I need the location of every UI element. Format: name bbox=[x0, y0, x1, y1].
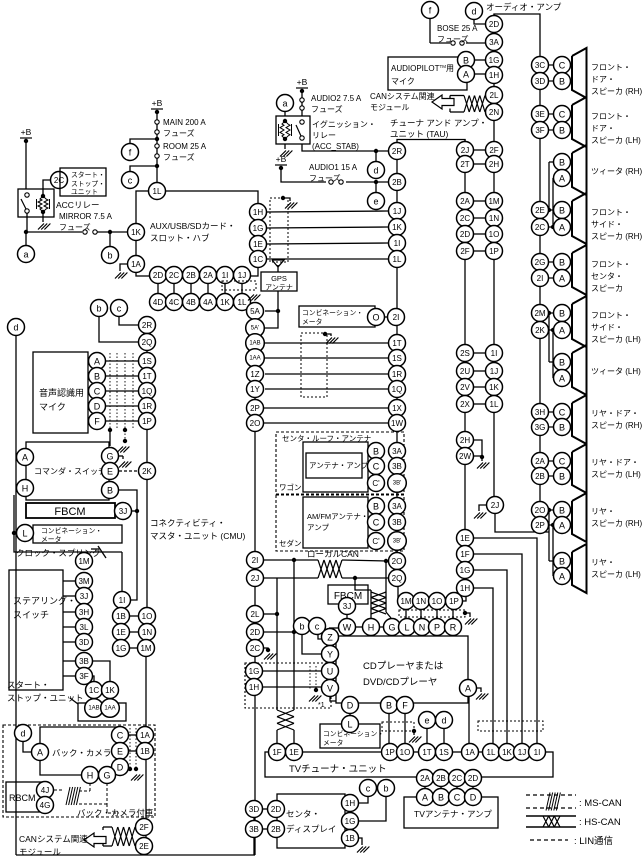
connector pin 3B' bbox=[388, 532, 407, 551]
connector pin 1B bbox=[137, 743, 154, 760]
svg-text:スピーカ (RH): スピーカ (RH) bbox=[591, 87, 642, 96]
wire 2L 2D elbows bbox=[264, 613, 277, 615]
svg-text:1Z: 1Z bbox=[250, 370, 259, 379]
shield dashed box below 1J bbox=[222, 281, 256, 290]
connector pin 1Y bbox=[247, 381, 264, 398]
svg-text:1I: 1I bbox=[394, 239, 401, 248]
svg-text:B: B bbox=[559, 472, 565, 482]
pin f top wire BOSE fuse to 3A bbox=[429, 18, 431, 43]
svg-text:a: a bbox=[23, 250, 28, 260]
connector pin 3D bbox=[532, 73, 549, 90]
connector pin 1T bbox=[139, 368, 156, 385]
svg-text:コマンダ・スイッチ: コマンダ・スイッチ bbox=[34, 466, 106, 476]
shield dashed on B F wires bbox=[382, 722, 414, 731]
svg-text:AUX/USB/SDカード・: AUX/USB/SDカード・ bbox=[150, 221, 236, 231]
connector pin 2B bbox=[389, 174, 406, 191]
svg-text:d: d bbox=[20, 729, 25, 739]
svg-text:ストップ・: ストップ・ bbox=[71, 180, 105, 188]
svg-text:1H: 1H bbox=[489, 71, 499, 80]
svg-text:C': C' bbox=[372, 537, 380, 546]
svg-text:2I: 2I bbox=[537, 274, 544, 283]
svg-text:F: F bbox=[402, 701, 408, 711]
hub right pins 1H 1G 1E 1C with wires to TAU bbox=[266, 211, 388, 212]
connector pin A bbox=[17, 449, 34, 466]
connector pin 4A bbox=[200, 294, 217, 311]
svg-text:1A: 1A bbox=[131, 260, 141, 269]
svg-text:2U: 2U bbox=[460, 367, 470, 376]
svg-text:d: d bbox=[373, 166, 378, 176]
svg-text:1E: 1E bbox=[116, 628, 126, 637]
svg-text:B: B bbox=[559, 557, 565, 567]
svg-text:C: C bbox=[559, 457, 566, 467]
svg-text:1O: 1O bbox=[142, 612, 153, 621]
svg-text:1AA: 1AA bbox=[249, 355, 260, 361]
connector pin 4B bbox=[183, 294, 200, 311]
svg-text:3B: 3B bbox=[392, 462, 402, 471]
svg-text:2P: 2P bbox=[535, 521, 545, 530]
svg-text:L: L bbox=[404, 623, 409, 633]
svg-text:1A: 1A bbox=[140, 731, 150, 740]
shield dashed box on speaker feed wires bbox=[478, 721, 543, 731]
connector pin c bbox=[360, 780, 377, 797]
connector pin b bbox=[102, 247, 119, 264]
connector pin 1I bbox=[217, 267, 234, 284]
svg-text:1Q: 1Q bbox=[392, 385, 403, 394]
svg-text:2P: 2P bbox=[250, 404, 260, 413]
pin A CD player with ground bbox=[476, 688, 481, 692]
svg-text:B: B bbox=[463, 56, 469, 66]
svg-text:2R: 2R bbox=[142, 321, 152, 330]
svg-text:2L: 2L bbox=[490, 91, 499, 100]
svg-text:AUDIO2 7.5 A: AUDIO2 7.5 A bbox=[311, 94, 362, 103]
connector pin D bbox=[112, 759, 129, 776]
svg-text:2D: 2D bbox=[468, 774, 478, 783]
connector pin 2F bbox=[457, 243, 474, 260]
connector pin 3H bbox=[532, 404, 549, 421]
connector pin 3C bbox=[532, 57, 549, 74]
svg-text:d: d bbox=[471, 7, 476, 17]
svg-text:c: c bbox=[128, 176, 133, 186]
svg-text:ACCリレー: ACCリレー bbox=[56, 200, 99, 210]
connector pin e bbox=[419, 712, 436, 729]
connector pin 2O bbox=[389, 553, 406, 570]
svg-text:1T: 1T bbox=[142, 372, 151, 381]
svg-text:D: D bbox=[470, 793, 477, 803]
svg-text:A: A bbox=[559, 521, 565, 531]
connector pin 1R bbox=[139, 398, 156, 415]
svg-text:C: C bbox=[559, 61, 566, 71]
svg-text:1I: 1I bbox=[119, 596, 126, 605]
connector pin 1O bbox=[429, 593, 446, 610]
CD top pins W H G L N P R bbox=[356, 626, 363, 628]
svg-text:2X: 2X bbox=[460, 400, 470, 409]
connector pin B bbox=[102, 482, 119, 499]
connector pin B bbox=[554, 354, 571, 371]
connector pin 1G bbox=[457, 562, 474, 579]
dashed LIN E to 2K bbox=[119, 470, 138, 472]
svg-text:2B: 2B bbox=[271, 825, 281, 834]
svg-text:RBCM: RBCM bbox=[9, 793, 36, 803]
connector pin d bbox=[436, 712, 453, 729]
svg-text:スピーカ (LH): スピーカ (LH) bbox=[591, 470, 641, 479]
connector pin 2A bbox=[417, 770, 434, 787]
connector pin B bbox=[554, 73, 571, 90]
connector pin 1G bbox=[246, 663, 263, 680]
svg-text:2G: 2G bbox=[535, 258, 546, 267]
audio amp main column trunk bbox=[493, 14, 495, 498]
wire relay out to 2R bbox=[302, 144, 388, 151]
svg-text:3B: 3B bbox=[249, 825, 259, 834]
svg-text:リヤ・ドア・: リヤ・ドア・ bbox=[591, 458, 639, 467]
svg-text:d: d bbox=[13, 323, 18, 333]
svg-text:1L: 1L bbox=[490, 400, 499, 409]
center roof antenna dashed box wagon bbox=[276, 432, 404, 494]
connector pin 2J bbox=[247, 570, 264, 587]
svg-text:C: C bbox=[373, 462, 380, 472]
svg-text:バック・カメラ: バック・カメラ bbox=[52, 748, 111, 758]
speaker horn front door LH bbox=[572, 97, 587, 147]
connector pin 1M bbox=[398, 593, 415, 610]
svg-text:2A: 2A bbox=[420, 774, 430, 783]
svg-text:モジュール: モジュール bbox=[19, 847, 61, 857]
speaker horn front center bbox=[572, 245, 587, 295]
connector pin O bbox=[368, 309, 385, 326]
wire 1P to 1H elbow bbox=[462, 596, 466, 601]
node a stub bbox=[25, 232, 27, 245]
svg-text:2C: 2C bbox=[460, 214, 470, 223]
ground relay coil bbox=[284, 144, 286, 149]
connector pin B bbox=[368, 443, 385, 460]
connector pin 2Q bbox=[139, 334, 156, 351]
connector pin 3A bbox=[389, 443, 406, 460]
connector pin A bbox=[32, 744, 49, 761]
connector pin 1K bbox=[486, 379, 503, 396]
svg-text:2B: 2B bbox=[392, 178, 402, 187]
legend MS-CAN bbox=[526, 794, 576, 796]
connector pin 1O bbox=[486, 226, 503, 243]
connector pin 2X bbox=[457, 396, 474, 413]
connector pin b bbox=[378, 780, 395, 797]
svg-text:B: B bbox=[373, 502, 379, 512]
wire CAN verticals down to TV tuner 1F 1E bbox=[293, 560, 295, 710]
svg-text:3F: 3F bbox=[535, 126, 544, 135]
connector pin 2C bbox=[166, 267, 183, 284]
combination meter box small with O bbox=[299, 306, 375, 327]
svg-text:4D: 4D bbox=[153, 298, 163, 307]
svg-text:1G: 1G bbox=[489, 56, 500, 65]
connector pin A bbox=[554, 370, 571, 387]
svg-text:3L: 3L bbox=[80, 623, 89, 632]
connector pin b bbox=[91, 300, 108, 317]
connector pin 2A bbox=[457, 193, 474, 210]
wire CMU left trunk bbox=[146, 333, 148, 463]
svg-text:フューズ: フューズ bbox=[309, 173, 341, 183]
connector pin 2K bbox=[532, 322, 549, 339]
svg-text:3J: 3J bbox=[80, 592, 88, 601]
svg-text:スピーカ (RH): スピーカ (RH) bbox=[591, 421, 642, 430]
connector pin 5A bbox=[247, 303, 264, 320]
connector pin A bbox=[554, 517, 571, 534]
svg-text:リヤ・: リヤ・ bbox=[591, 507, 615, 516]
connector pin H bbox=[17, 480, 34, 497]
connector pin 1H bbox=[246, 679, 263, 696]
svg-text:1I: 1I bbox=[534, 748, 541, 757]
svg-text:2J: 2J bbox=[251, 574, 259, 583]
svg-text:1B: 1B bbox=[140, 747, 150, 756]
svg-text:1P: 1P bbox=[449, 597, 459, 606]
svg-text:V: V bbox=[327, 684, 333, 694]
svg-text:2Q: 2Q bbox=[142, 338, 153, 347]
connector pin 3L bbox=[76, 619, 93, 636]
svg-text:2K: 2K bbox=[535, 326, 545, 335]
svg-text:C: C bbox=[117, 731, 124, 741]
svg-text:2I: 2I bbox=[252, 556, 259, 565]
svg-text:フロント・: フロント・ bbox=[591, 63, 631, 72]
svg-text:メータ: メータ bbox=[302, 317, 322, 326]
wire 2Q elbow to 1M bbox=[398, 586, 399, 601]
connector pin 1K bbox=[217, 294, 234, 311]
svg-text:1S: 1S bbox=[392, 354, 402, 363]
connector pin A bbox=[554, 568, 571, 585]
svg-text:A: A bbox=[559, 374, 565, 384]
CAN system module bottom HS-CAN bbox=[103, 826, 112, 828]
connector pin 1F bbox=[457, 546, 474, 563]
wire V elbow bbox=[330, 697, 336, 701]
svg-text:ROOM 25 A: ROOM 25 A bbox=[163, 142, 207, 151]
connector pin 3J bbox=[115, 503, 132, 520]
connector pin 2B bbox=[532, 468, 549, 485]
svg-text:2D: 2D bbox=[460, 230, 470, 239]
connector pin 1J bbox=[514, 744, 531, 761]
connector pin 1J bbox=[389, 203, 406, 220]
connector pin B bbox=[381, 697, 398, 714]
svg-text:1P: 1P bbox=[385, 748, 395, 757]
connector pin D bbox=[465, 789, 482, 806]
connector pin 4C bbox=[166, 294, 183, 311]
svg-text:1N: 1N bbox=[489, 214, 499, 223]
connector pin A bbox=[89, 353, 106, 370]
ignition relay box bbox=[276, 116, 310, 144]
wire CMU right trunk bbox=[254, 311, 256, 855]
svg-text:スロット・ハブ: スロット・ハブ bbox=[150, 233, 210, 243]
svg-text:マイク: マイク bbox=[39, 402, 66, 412]
svg-text:2Q: 2Q bbox=[392, 574, 403, 583]
connector pin 2B bbox=[433, 770, 450, 787]
speaker horn tweeter LH bbox=[572, 345, 587, 395]
connector pin B bbox=[554, 419, 571, 436]
connector pin V bbox=[322, 680, 339, 697]
svg-text:1F: 1F bbox=[272, 748, 281, 757]
speaker trunk line bbox=[539, 48, 541, 533]
connector pin 2A bbox=[200, 267, 217, 284]
svg-text:3E: 3E bbox=[535, 110, 545, 119]
connector pin 1H bbox=[250, 204, 267, 221]
TAU right column trunk bbox=[464, 139, 466, 596]
svg-text:2O: 2O bbox=[535, 506, 546, 515]
connector pin d bbox=[368, 162, 385, 179]
speaker horn rear RH bbox=[572, 493, 587, 542]
svg-text:スピーカ (LH): スピーカ (LH) bbox=[591, 335, 641, 344]
pin a ignition relay bbox=[284, 112, 286, 116]
connector pin 3E bbox=[532, 106, 549, 123]
svg-text:1AB: 1AB bbox=[249, 340, 260, 346]
svg-text:1S: 1S bbox=[439, 748, 449, 757]
wire branch to c bbox=[130, 166, 157, 171]
shield dashed box 1M row bbox=[399, 610, 465, 617]
connector pin L bbox=[399, 619, 416, 636]
wire H trunk down to clock spring bbox=[14, 495, 122, 552]
connector pin R bbox=[445, 619, 462, 636]
svg-text:P: P bbox=[434, 623, 440, 633]
connector pin 3A bbox=[389, 498, 406, 515]
connector pin 1N bbox=[486, 210, 503, 227]
connector pin 1AB bbox=[85, 699, 104, 718]
pin 3J FBCM2 bbox=[346, 612, 348, 619]
connector pin 2F bbox=[136, 819, 153, 836]
svg-text:4B: 4B bbox=[186, 298, 196, 307]
svg-text:2D: 2D bbox=[489, 20, 499, 29]
svg-text:+B: +B bbox=[297, 77, 308, 87]
connector pin 2U bbox=[457, 363, 474, 380]
svg-text:イグニッション・: イグニッション・ bbox=[312, 119, 376, 129]
connector pin 2L bbox=[486, 87, 503, 104]
speaker horn rear LH bbox=[572, 544, 587, 593]
svg-text:リヤ・: リヤ・ bbox=[591, 558, 615, 567]
connector pin B bbox=[554, 202, 571, 219]
connector pin 1P bbox=[382, 744, 399, 761]
svg-text:アンテナ・アンプ: アンテナ・アンプ bbox=[309, 461, 369, 470]
svg-text:1Q: 1Q bbox=[142, 387, 153, 396]
connector pin 1K bbox=[102, 682, 119, 699]
connector pin 1C bbox=[86, 682, 103, 699]
connector pin A bbox=[417, 789, 434, 806]
connector pin 2D bbox=[457, 226, 474, 243]
svg-text:U: U bbox=[327, 667, 334, 677]
svg-text:A: A bbox=[94, 357, 100, 367]
wire d to 2D and top to speaker trunk bbox=[474, 19, 485, 24]
connector pin 2B bbox=[268, 821, 285, 838]
svg-text:N: N bbox=[419, 623, 426, 633]
connector pin 1I bbox=[529, 744, 546, 761]
svg-text:マスタ・ユニット (CMU): マスタ・ユニット (CMU) bbox=[150, 531, 246, 541]
connector pin 2C bbox=[532, 219, 549, 236]
center display box bbox=[277, 794, 345, 848]
svg-text:1T: 1T bbox=[392, 339, 401, 348]
svg-text:1E: 1E bbox=[253, 240, 263, 249]
svg-text:フューズ: フューズ bbox=[59, 222, 91, 232]
svg-text:セダン: セダン bbox=[279, 538, 302, 548]
rear speaker LH feed wires bbox=[548, 510, 550, 561]
svg-text:B: B bbox=[386, 701, 392, 711]
svg-text:B: B bbox=[559, 158, 565, 168]
svg-text:サイド・: サイド・ bbox=[591, 323, 623, 332]
svg-text:C: C bbox=[94, 387, 101, 397]
svg-text:フロント・: フロント・ bbox=[591, 112, 631, 121]
connector pin 3B bbox=[389, 458, 406, 475]
connector pin 1G bbox=[250, 220, 267, 237]
connector pin 3H bbox=[76, 604, 93, 621]
svg-text:1R: 1R bbox=[142, 402, 152, 411]
connector pin d bbox=[15, 725, 32, 742]
TAU bracket bbox=[397, 140, 465, 144]
wire B to 3J junction bbox=[119, 490, 137, 600]
connector pin W bbox=[339, 619, 356, 636]
svg-text:e: e bbox=[424, 716, 429, 726]
connector pin B bbox=[433, 789, 450, 806]
connector pin 1A bbox=[462, 744, 479, 761]
svg-text:B: B bbox=[559, 77, 565, 87]
svg-text:1B: 1B bbox=[116, 612, 126, 621]
connector pin 2D bbox=[486, 16, 503, 33]
connector pin B bbox=[554, 122, 571, 139]
svg-text:1C: 1C bbox=[89, 686, 99, 695]
svg-text:R: R bbox=[450, 623, 457, 633]
svg-text:スタート・: スタート・ bbox=[71, 170, 105, 179]
svg-text:センタ・: センタ・ bbox=[591, 272, 623, 281]
svg-text:2C: 2C bbox=[54, 176, 64, 185]
svg-text:E: E bbox=[107, 467, 113, 477]
svg-text:2H: 2H bbox=[460, 436, 470, 445]
svg-text:+B: +B bbox=[276, 154, 287, 164]
connector pin C bbox=[112, 727, 129, 744]
svg-text:2S: 2S bbox=[460, 349, 470, 358]
wire bottom long wire to display 3B and left d bbox=[15, 335, 17, 855]
svg-text:1AB: 1AB bbox=[88, 705, 99, 711]
connector pin 1L bbox=[483, 744, 500, 761]
svg-text:2B: 2B bbox=[436, 774, 446, 783]
legend HS-CAN bbox=[526, 815, 576, 817]
svg-text:スイッチ: スイッチ bbox=[13, 610, 49, 620]
connector pin 1H bbox=[486, 67, 503, 84]
svg-text:: LIN通信: : LIN通信 bbox=[574, 835, 613, 847]
svg-text:c: c bbox=[366, 784, 371, 794]
connector pin D bbox=[89, 398, 106, 415]
connector pin 1M bbox=[138, 640, 155, 657]
connector pin 1N bbox=[413, 593, 430, 610]
connector pin 3G bbox=[532, 419, 549, 436]
svg-text:ディスプレイ: ディスプレイ bbox=[286, 824, 336, 834]
svg-text:H: H bbox=[22, 484, 29, 494]
svg-text:センタ・: センタ・ bbox=[286, 809, 320, 819]
connector pin 1I bbox=[486, 345, 503, 362]
pin d back camera bbox=[23, 741, 31, 752]
connector pin 1H bbox=[342, 795, 359, 812]
svg-text:フューズ: フューズ bbox=[437, 34, 469, 44]
connector pin 1G bbox=[113, 640, 130, 657]
svg-text:A: A bbox=[463, 70, 469, 80]
svg-text:TVアンテナ・アンプ: TVアンテナ・アンプ bbox=[414, 809, 492, 819]
pins 2H 2W with ground bbox=[474, 440, 482, 461]
ground ACC relay coil bbox=[42, 212, 44, 222]
legend LIN bbox=[530, 839, 568, 841]
svg-text:1K: 1K bbox=[502, 748, 512, 757]
svg-text:B: B bbox=[373, 447, 379, 457]
svg-text:フロント・: フロント・ bbox=[591, 260, 631, 269]
svg-text:3B: 3B bbox=[392, 518, 402, 527]
connector pin 1P bbox=[139, 413, 156, 430]
pin 3J FBCM bbox=[132, 510, 137, 512]
svg-text:フロント・: フロント・ bbox=[591, 311, 631, 320]
svg-text:スピーカ: スピーカ bbox=[591, 284, 623, 293]
connector pin 1G bbox=[486, 52, 503, 69]
connector pin 3F bbox=[532, 122, 549, 139]
connector pin 2D bbox=[465, 770, 482, 787]
svg-text:A: A bbox=[37, 748, 43, 758]
AUDIOPILOT mic box bbox=[388, 57, 467, 90]
wires local CAN twisted bbox=[264, 559, 318, 561]
svg-text:5A': 5A' bbox=[251, 325, 259, 331]
svg-text:1O: 1O bbox=[432, 597, 443, 606]
